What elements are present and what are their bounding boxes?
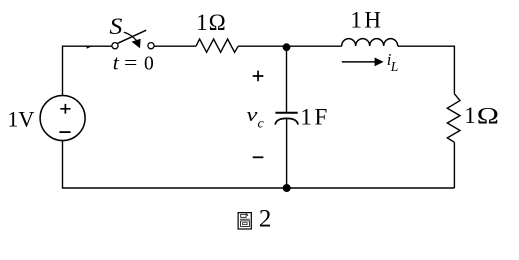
svg-text:1: 1 <box>300 105 312 130</box>
V1 plus sign <box>60 104 70 114</box>
svg-text:H: H <box>364 8 381 33</box>
wire from source top to top-left corner to switch left contact <box>63 46 112 96</box>
svg-text:1: 1 <box>7 106 18 131</box>
capacitor C1 top plate <box>275 112 297 114</box>
label 1 H <box>350 8 381 33</box>
bottom wire <box>63 140 455 188</box>
capacitor plus sign <box>253 71 264 82</box>
svg-text:c: c <box>258 117 265 132</box>
wire from inductor to top-right corner down to resistor R2 <box>398 46 455 94</box>
label iL <box>387 50 399 74</box>
V1 minus sign <box>59 131 70 133</box>
svg-text:Ω: Ω <box>209 10 226 35</box>
resistor R1 zigzag <box>196 39 238 52</box>
svg-text:2: 2 <box>259 206 272 233</box>
svg-text:S: S <box>109 14 123 39</box>
wire from top node to capacitor top plate <box>286 47 288 112</box>
label vc <box>246 105 264 132</box>
label 1 F <box>300 105 327 130</box>
current arrow marker on left top wire <box>87 45 92 48</box>
wire from R1 to inductor through top node <box>238 45 342 47</box>
wire from R2 to bottom-right corner <box>453 142 455 188</box>
switch S closing arrow arc <box>124 32 137 40</box>
svg-text:t: t <box>113 51 120 75</box>
svg-text:1: 1 <box>464 103 476 128</box>
inductor current arrow line <box>342 61 375 63</box>
node dot top <box>283 43 291 51</box>
resistor R2 zigzag <box>447 94 460 143</box>
svg-text:V: V <box>18 106 34 131</box>
switch S lever <box>118 30 147 43</box>
svg-text:Ω: Ω <box>477 103 499 128</box>
caption glyph tu (figure) drawn <box>238 213 251 229</box>
node dot bottom <box>283 184 291 192</box>
label 1V <box>7 106 34 131</box>
svg-text:0: 0 <box>144 54 154 75</box>
wire from switch right contact to resistor R1 <box>154 45 196 47</box>
capacitor minus sign <box>253 156 264 158</box>
label 1 ohm (R1) <box>196 10 226 35</box>
svg-text:=: = <box>124 52 137 74</box>
switch S closing arrowhead <box>132 39 141 49</box>
svg-text:F: F <box>315 105 328 130</box>
capacitor C1 curved plate <box>275 118 298 124</box>
svg-text:v: v <box>246 105 258 126</box>
wire from capacitor curved plate to bottom node <box>286 118 288 188</box>
svg-text:1: 1 <box>350 8 362 33</box>
voltage source V1 circle <box>40 96 85 141</box>
svg-text:1: 1 <box>196 10 208 35</box>
inductor current arrowhead <box>375 58 384 67</box>
inductor L1 humps <box>342 39 398 46</box>
svg-text:L: L <box>390 59 399 74</box>
switch S left contact <box>112 43 118 49</box>
label 1 ohm (R2) <box>464 103 499 128</box>
switch S right contact <box>148 43 154 49</box>
label t = 0 <box>113 51 154 75</box>
